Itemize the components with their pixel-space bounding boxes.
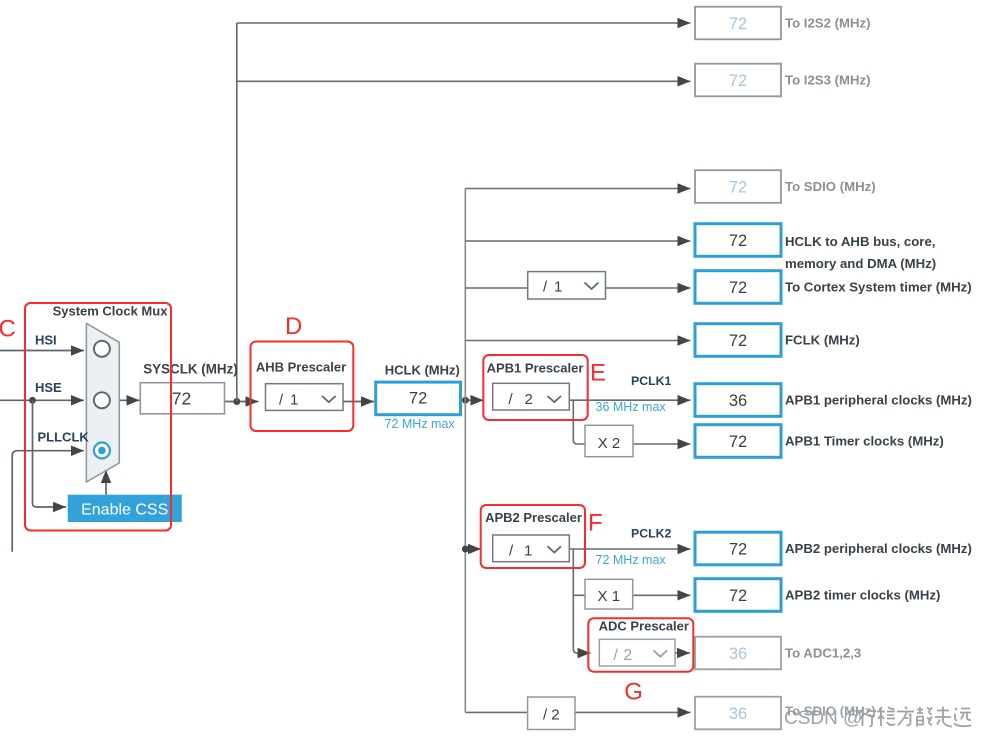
box SYSCLK value xyxy=(140,383,224,414)
box APB1 Timer clocks xyxy=(695,425,781,458)
node HCLK junction APB2 xyxy=(462,546,469,553)
wire ADC prescaler to ADC box xyxy=(675,652,690,654)
svg-text:72: 72 xyxy=(729,72,747,90)
svg-text:72: 72 xyxy=(729,15,747,33)
box FCLK xyxy=(695,324,781,357)
node HCLK junction APB1 xyxy=(462,397,469,404)
dropdown APB2 prescaler /1 xyxy=(493,535,570,562)
radio PLLCLK (selected) xyxy=(94,443,110,459)
multiplier X2 box xyxy=(585,425,633,456)
watermark glyph neng xyxy=(917,707,932,727)
wire APB1 prescaler output PCLK1 xyxy=(569,399,690,401)
svg-text:E: E xyxy=(590,360,606,387)
svg-text:36: 36 xyxy=(729,645,747,663)
svg-text:72: 72 xyxy=(729,433,747,451)
svg-text:PLLCLK: PLLCLK xyxy=(38,430,90,445)
wire X2 to APB1 timer box xyxy=(633,443,691,445)
wire to SDIO xyxy=(465,188,690,190)
svg-text:C: C xyxy=(0,316,16,343)
wire HCLK bus vertical xyxy=(464,189,466,713)
box To I2S3 xyxy=(695,64,781,97)
watermark glyph fang xyxy=(897,707,914,726)
svg-text:ADC Prescaler: ADC Prescaler xyxy=(599,619,689,634)
svg-text:System Clock Mux: System Clock Mux xyxy=(53,304,169,319)
box APB1 peripheral clocks xyxy=(695,384,781,417)
box APB2 timer clocks xyxy=(695,579,781,612)
box To Cortex System timer xyxy=(695,271,781,304)
svg-text:72: 72 xyxy=(729,541,747,559)
svg-text:CSDN @: CSDN @ xyxy=(784,708,862,729)
watermark CSDN text xyxy=(784,707,971,730)
svg-text:36: 36 xyxy=(729,392,747,410)
dropdown AHB prescaler /1 xyxy=(266,384,344,411)
wire mux output to SYSCLK xyxy=(119,399,139,401)
svg-text:PCLK2: PCLK2 xyxy=(631,527,671,541)
svg-text:X 1: X 1 xyxy=(598,588,621,605)
svg-text:D: D xyxy=(285,313,302,340)
box To ADC xyxy=(695,637,781,670)
svg-text:HCLK to AHB bus, core,: HCLK to AHB bus, core, xyxy=(785,234,935,249)
wire to HCLK AHB bus xyxy=(465,240,690,242)
svg-text:F: F xyxy=(588,510,603,537)
wire APB2 branch to X1 xyxy=(573,594,585,596)
svg-text:X 2: X 2 xyxy=(598,435,621,452)
wire X1 to APB2 timer box xyxy=(633,594,691,596)
wire bottom to div2 xyxy=(465,711,527,713)
wire APB1 branch to X2 xyxy=(573,400,585,444)
watermark glyph zou xyxy=(935,707,952,727)
svg-text:APB1 Timer clocks (MHz): APB1 Timer clocks (MHz) xyxy=(785,434,944,449)
wire SYSCLK bus vertical xyxy=(236,23,238,402)
svg-text:To I2S3 (MHz): To I2S3 (MHz) xyxy=(785,73,870,88)
wire APB2 prescaler output PCLK2 xyxy=(569,548,690,550)
svg-text:To SDIO (MHz): To SDIO (MHz) xyxy=(785,179,876,194)
box To SDIO xyxy=(695,170,781,203)
svg-text:APB1 Prescaler: APB1 Prescaler xyxy=(487,361,584,376)
svg-text:APB1 peripheral clocks (MHz): APB1 peripheral clocks (MHz) xyxy=(785,393,972,408)
svg-text:72: 72 xyxy=(729,332,747,350)
mux System Clock Mux body xyxy=(86,323,119,482)
box APB2 peripheral clocks xyxy=(695,532,781,565)
svg-text:72: 72 xyxy=(729,279,747,297)
svg-text:G: G xyxy=(624,679,643,706)
wire to I2S2 xyxy=(237,22,691,24)
watermark glyph xing xyxy=(859,707,971,727)
multiplier X1 box xyxy=(585,579,633,609)
wire HSE to Enable CSS xyxy=(33,400,67,507)
svg-text:To ADC1,2,3: To ADC1,2,3 xyxy=(785,646,861,661)
divider /2 box (SDIO) xyxy=(528,697,575,730)
wire HSI input xyxy=(0,350,84,352)
annotation rect G (ADC Prescaler) xyxy=(588,618,693,671)
wire to I2S3 xyxy=(237,80,691,82)
svg-text:HSE: HSE xyxy=(35,380,62,395)
svg-text:/ 2: / 2 xyxy=(543,707,560,724)
wire HCLK to APB2 prescaler xyxy=(465,548,481,550)
svg-text:Enable CSS: Enable CSS xyxy=(81,502,168,519)
annotation rect C (System Clock Mux) xyxy=(25,303,171,531)
wire to FCLK xyxy=(465,340,690,342)
svg-text:PCLK1: PCLK1 xyxy=(631,374,671,388)
wire HSE input xyxy=(0,399,84,401)
wire Enable CSS to mux xyxy=(105,470,107,495)
watermark glyph wen xyxy=(877,707,895,726)
svg-text:To Cortex System timer (MHz): To Cortex System timer (MHz) xyxy=(785,280,972,295)
wire APB2 branch down xyxy=(573,549,590,653)
box To SDIO bottom xyxy=(695,697,781,730)
svg-text:HCLK (MHz): HCLK (MHz) xyxy=(385,363,460,378)
radio HSE (unselected) xyxy=(94,392,110,408)
wire PLLCLK feeder xyxy=(12,451,84,552)
dropdown ADC prescaler /2 (disabled) xyxy=(599,639,675,666)
svg-text:36 MHz max: 36 MHz max xyxy=(596,400,667,414)
dropdown Cortex prescaler /1 xyxy=(528,272,606,299)
button Enable CSS xyxy=(68,495,182,522)
svg-text:APB2 peripheral clocks (MHz): APB2 peripheral clocks (MHz) xyxy=(785,541,972,556)
wire HCLK output to APB1 prescaler xyxy=(461,399,484,401)
svg-text:APB2 Prescaler: APB2 Prescaler xyxy=(485,510,582,525)
svg-text:APB2 timer clocks (MHz): APB2 timer clocks (MHz) xyxy=(785,588,940,603)
svg-text:FCLK (MHz): FCLK (MHz) xyxy=(785,333,860,348)
box To I2S2 xyxy=(695,7,781,40)
svg-text:SYSCLK (MHz): SYSCLK (MHz) xyxy=(143,362,237,377)
watermark glyph yuan xyxy=(954,708,971,726)
box HCLK value xyxy=(376,382,461,415)
wire div2 to SDIO box xyxy=(575,711,691,713)
annotation rect F (APB2 Prescaler) xyxy=(481,505,585,568)
wire AHB prescaler to HCLK xyxy=(343,401,374,403)
svg-text:HSI: HSI xyxy=(35,333,57,348)
node HSE junction xyxy=(29,397,36,404)
dropdown APB1 prescaler /2 xyxy=(493,383,570,410)
annotation rect D (AHB Prescaler) xyxy=(251,342,354,432)
svg-text:To I2S2 (MHz): To I2S2 (MHz) xyxy=(785,16,870,31)
wire Cortex prescaler to box xyxy=(606,287,691,289)
svg-text:72: 72 xyxy=(172,389,191,409)
radio HSI (unselected) xyxy=(94,341,110,357)
svg-text:72 MHz max: 72 MHz max xyxy=(596,553,667,567)
svg-text:72: 72 xyxy=(729,232,747,250)
svg-text:72 MHz max: 72 MHz max xyxy=(385,417,456,431)
node SYSCLK junction xyxy=(233,398,240,405)
svg-text:72: 72 xyxy=(409,390,427,408)
wire SYSCLK output to AHB prescaler xyxy=(225,401,259,403)
svg-text:AHB Prescaler: AHB Prescaler xyxy=(256,360,346,375)
svg-text:72: 72 xyxy=(729,179,747,197)
wire to Cortex prescaler xyxy=(465,287,527,289)
box HCLK to AHB xyxy=(695,224,781,257)
annotation rect E (APB1 Prescaler) xyxy=(483,355,587,420)
svg-text:memory and DMA (MHz): memory and DMA (MHz) xyxy=(785,256,936,271)
svg-text:/2: /2 xyxy=(614,647,633,664)
svg-text:36: 36 xyxy=(729,705,747,723)
svg-text:72: 72 xyxy=(729,587,747,605)
